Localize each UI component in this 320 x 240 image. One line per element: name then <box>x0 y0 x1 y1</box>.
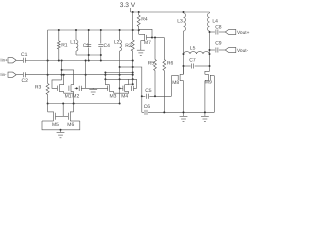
capacitor C1 <box>22 58 24 63</box>
resistor R4 <box>138 12 140 15</box>
inductor L4 <box>209 12 211 13</box>
wire row79 <box>105 78 136 80</box>
wire tank top <box>48 29 139 31</box>
wire x61 riser <box>61 61 63 80</box>
wire M3M4 mid v <box>119 67 121 104</box>
wire power rail <box>131 11 210 13</box>
svg-text:M1: M1 <box>65 94 72 100</box>
capacitor C5 <box>142 95 146 97</box>
transistor M1 <box>56 86 58 91</box>
resistor R6 <box>163 38 165 60</box>
capacitor C9 <box>215 48 217 53</box>
transistor M5 <box>47 104 49 112</box>
svg-text:C4: C4 <box>104 43 111 49</box>
node L4-L5 <box>209 53 211 55</box>
capacitor M4 gate cap <box>130 86 132 91</box>
transistor M7 <box>146 35 148 40</box>
node rail-bus <box>132 11 134 13</box>
node row67 L2 <box>119 66 121 68</box>
node tankbot C3 <box>88 54 90 56</box>
node C6row-M9 <box>204 111 206 113</box>
node C5 feed <box>141 95 143 97</box>
svg-text:L1: L1 <box>70 40 76 46</box>
node row79 x105 <box>104 78 106 80</box>
svg-text:M8: M8 <box>172 80 179 86</box>
node bus-row84 <box>132 83 134 85</box>
wire Iin- to C2 <box>16 74 23 76</box>
wire bias row <box>152 37 164 39</box>
svg-text:R5: R5 <box>148 60 155 66</box>
transistor M6 <box>73 104 75 112</box>
node row103 tail1 <box>73 103 75 105</box>
resistor R1 <box>58 30 60 41</box>
inductor L3 <box>184 13 186 31</box>
svg-text:R4: R4 <box>141 16 148 22</box>
node gnd row130 <box>60 129 62 131</box>
node tankbot C4 <box>100 54 102 56</box>
node x85 row60 <box>85 60 87 62</box>
transistor M9 <box>209 75 211 80</box>
node Iin- x105 <box>104 74 106 76</box>
wire gate net left <box>75 87 79 89</box>
svg-text:3.3 V: 3.3 V <box>120 2 136 9</box>
node tanktop C3 <box>88 29 90 31</box>
svg-text:C6: C6 <box>144 104 151 110</box>
resistor R5 <box>154 38 156 60</box>
svg-text:Vout-: Vout- <box>237 48 249 54</box>
node Iin+ bus <box>132 60 134 62</box>
node L3-L5 <box>183 53 185 55</box>
svg-text:M7: M7 <box>144 40 151 46</box>
ground mid <box>92 87 94 90</box>
wire M4 cap to loop <box>134 87 137 89</box>
svg-text:R1: R1 <box>61 42 68 48</box>
node tanktop C4 <box>100 29 102 31</box>
node row103 tail2 <box>119 103 121 105</box>
wire C8 row <box>210 31 215 33</box>
node C5-R5 <box>154 95 156 97</box>
transistor M2 <box>68 86 70 91</box>
capacitor C2 <box>22 72 24 77</box>
wire tank bottom <box>76 54 101 56</box>
svg-text:L2: L2 <box>114 40 120 46</box>
transistor M4 <box>122 86 124 91</box>
node tanktop R1 <box>58 29 60 31</box>
svg-text:M3: M3 <box>110 94 117 100</box>
node row72 x105 <box>104 72 106 74</box>
svg-text:C7: C7 <box>189 58 196 64</box>
node L4-C7 <box>209 65 211 67</box>
transistor M3 <box>107 86 109 91</box>
node Iin- x61 <box>61 74 63 76</box>
svg-text:L5: L5 <box>190 46 196 52</box>
wire Iin+ to C1 <box>16 59 23 61</box>
wire M7 gate loop <box>139 29 152 37</box>
node bus-row72 <box>132 72 134 74</box>
wire L4 down <box>209 31 211 71</box>
svg-text:L4: L4 <box>212 18 218 24</box>
node tanktop L2 <box>119 29 121 31</box>
wire Iin- row <box>25 74 132 76</box>
node R3 bottom <box>47 103 49 105</box>
node rail-R4 <box>138 11 140 13</box>
svg-text:Iin+: Iin+ <box>0 57 8 62</box>
node Iin+ R1 <box>58 60 60 62</box>
wire bus lower <box>132 51 134 84</box>
svg-text:L3: L3 <box>177 18 183 24</box>
wire C5C6 feed <box>133 67 142 112</box>
svg-text:R2: R2 <box>125 43 132 49</box>
svg-text:C9: C9 <box>215 40 222 46</box>
node Iin+ x47 <box>47 60 49 62</box>
wire M5M6 gates <box>62 104 64 117</box>
wire row84 stub <box>129 83 133 85</box>
node bus-row67 <box>132 66 134 68</box>
wire row69 jog <box>62 70 74 85</box>
wire M8 source <box>183 81 185 113</box>
node Iin+ x61 <box>61 60 63 62</box>
wire row103 <box>48 103 120 105</box>
wire input riser <box>47 30 49 84</box>
svg-text:C3: C3 <box>83 43 90 49</box>
node M3M4 mid <box>119 87 121 89</box>
svg-text:Vout+: Vout+ <box>237 30 250 36</box>
svg-text:C2: C2 <box>22 78 29 84</box>
svg-text:Iin-: Iin- <box>0 72 7 77</box>
capacitor C8 <box>215 30 217 35</box>
svg-text:M5: M5 <box>52 122 59 128</box>
node row60 C3 <box>88 60 90 62</box>
node tanktop L1 <box>75 29 77 31</box>
node Iin- bus <box>132 74 134 76</box>
node Iin- x119 <box>119 74 121 76</box>
node L3-C7 <box>183 65 185 67</box>
wire bus upper <box>132 12 134 40</box>
ground M5M6 <box>60 130 62 133</box>
wire 3.3V stub <box>130 8 132 12</box>
node rail-L3 <box>183 11 185 13</box>
node C6row-M8 <box>183 111 185 113</box>
node row60 C4 <box>100 60 102 62</box>
svg-text:R3: R3 <box>35 85 42 91</box>
inductor L1 <box>75 30 77 40</box>
node bias-R5 <box>154 37 156 39</box>
svg-text:M6: M6 <box>67 122 74 128</box>
svg-text:M4: M4 <box>121 94 128 100</box>
node L4-C9 <box>209 49 211 51</box>
node R4 bottom <box>138 29 140 31</box>
capacitor gate net <box>78 86 80 91</box>
node gate net dot <box>76 87 78 89</box>
svg-text:M9: M9 <box>205 79 212 85</box>
node bus-row79 <box>132 78 134 80</box>
capacitor C6 <box>142 111 144 113</box>
svg-text:R6: R6 <box>167 60 174 66</box>
wire M1 gate hook <box>52 80 62 88</box>
capacitor C4 <box>100 30 102 44</box>
port Vout- <box>225 47 236 52</box>
wire gate net mid <box>81 87 107 89</box>
svg-text:C1: C1 <box>21 52 28 58</box>
inductor L2 <box>119 30 121 40</box>
ground M7 <box>137 49 145 51</box>
capacitor C3 <box>88 30 90 44</box>
wire Iin+ row <box>25 60 132 62</box>
ground M8 <box>183 112 185 116</box>
node L4-C8 <box>209 31 211 33</box>
node M7 gate <box>151 37 153 39</box>
inductor L5 <box>184 52 210 54</box>
transistor M8 <box>177 75 179 80</box>
wire M9 source <box>204 81 206 113</box>
node Iin- x85 <box>85 74 87 76</box>
wire row72 <box>105 72 132 74</box>
svg-text:C8: C8 <box>215 25 222 31</box>
wire L3 down <box>183 31 185 74</box>
svg-text:C5: C5 <box>145 88 152 94</box>
ground M9 <box>204 112 206 116</box>
node row79 x119 <box>119 78 121 80</box>
resistor R2 <box>131 40 134 51</box>
node x61 row69 <box>61 69 63 71</box>
port Vout+ <box>225 29 236 34</box>
capacitor C7 <box>184 65 191 67</box>
wire row67 L2 <box>120 66 133 68</box>
node Iin- x47 <box>47 74 49 76</box>
node Iin- x63 <box>63 74 65 76</box>
node C6row-R6 <box>163 111 165 113</box>
wire M1M2 tail <box>73 92 75 104</box>
wire loop v <box>136 79 138 88</box>
wire x85 drop <box>85 61 87 89</box>
node bus-tanktop <box>132 29 134 31</box>
node row103 gates <box>62 103 64 105</box>
resistor R3 <box>46 84 49 95</box>
wire C9 row <box>210 49 215 51</box>
